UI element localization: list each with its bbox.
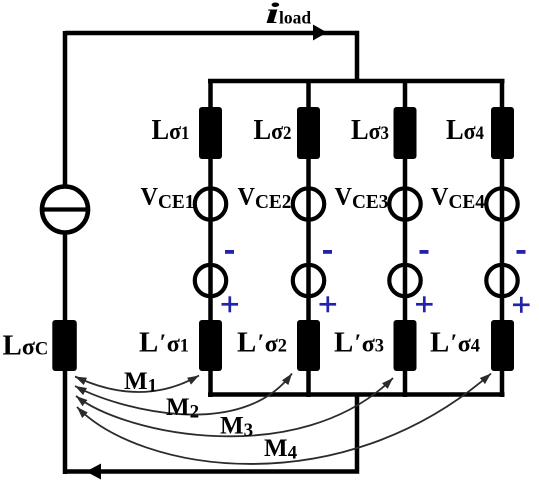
svg-text:load: load	[279, 8, 311, 28]
svg-text:i: i	[265, 0, 280, 30]
